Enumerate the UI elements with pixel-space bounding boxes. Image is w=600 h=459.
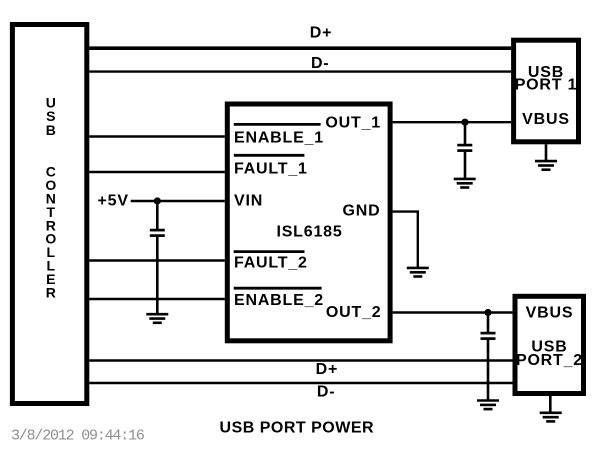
wire capacitor C3 bottom lead to ground (crosses D+ and D-) bbox=[487, 340, 490, 400]
wire D+ (top, controller to USB port 1) bbox=[89, 46, 511, 50]
wire GND pin (U1 to ground), horizontal then vertical bbox=[393, 210, 418, 267]
wire capacitor C1 top lead bbox=[156, 201, 159, 229]
wire capacitor C2 bottom lead to ground bbox=[464, 152, 467, 180]
ground (USB port 1) bbox=[535, 161, 557, 170]
svg-text:FAULT_1: FAULT_1 bbox=[234, 160, 308, 177]
node junction on OUT_2 wire bbox=[484, 309, 491, 316]
ground (below C2) bbox=[454, 179, 476, 188]
wire capacitor C3 top lead bbox=[487, 313, 490, 334]
svg-text:3/8/2012 09:44:16: 3/8/2012 09:44:16 bbox=[11, 428, 145, 445]
svg-text:R: R bbox=[46, 284, 56, 300]
svg-text:OUT_1: OUT_1 bbox=[325, 115, 381, 132]
capacitor C3 (port 2 bypass) bbox=[481, 333, 496, 339]
svg-text:GND: GND bbox=[343, 203, 381, 220]
ground (GND pin) bbox=[407, 268, 429, 277]
node junction on OUT_1 wire bbox=[461, 119, 468, 126]
ground (USB port 2) bbox=[540, 413, 562, 422]
wire D+ (bottom, controller to USB port 2) bbox=[89, 359, 512, 362]
wire D- (top, controller to USB port 1) bbox=[89, 70, 511, 72]
capacitor C2 (port 1 bypass) bbox=[457, 145, 472, 151]
svg-text:PORT 1: PORT 1 bbox=[515, 77, 578, 94]
wire capacitor C2 top lead bbox=[464, 122, 467, 145]
svg-text:PORT_2: PORT_2 bbox=[516, 352, 583, 369]
wire VIN (+5V to U1) bbox=[131, 200, 225, 202]
wire OUT_2 (U1 to USB port 2 VBUS) bbox=[393, 311, 513, 313]
USB port 2 box bbox=[515, 296, 584, 393]
wire OUT_1 (U1 to USB port 1 VBUS) bbox=[393, 121, 512, 123]
wire capacitor C1 bottom lead to ground bbox=[156, 237, 159, 314]
pin label ENABLE_2 with overline bbox=[234, 288, 324, 309]
svg-text:FAULT_2: FAULT_2 bbox=[234, 255, 308, 272]
wire ENABLE_1 (controller to U1) bbox=[89, 135, 225, 137]
svg-text:B: B bbox=[46, 122, 56, 138]
wire USB port 1 ground pin bbox=[545, 144, 548, 161]
svg-text:D+: D+ bbox=[316, 361, 339, 378]
node junction on VIN wire bbox=[154, 197, 161, 204]
wire ENABLE_2 (controller to U1) bbox=[89, 298, 225, 300]
pin label FAULT_1 with overline bbox=[234, 155, 308, 177]
wire FAULT_1 (controller to U1) bbox=[89, 171, 225, 173]
svg-text:+5V: +5V bbox=[98, 192, 129, 209]
svg-text:ENABLE_1: ENABLE_1 bbox=[234, 129, 324, 146]
ground (below C1) bbox=[146, 314, 168, 323]
wire USB port 2 ground pin bbox=[549, 396, 552, 412]
svg-text:D+: D+ bbox=[310, 24, 333, 41]
ground (below C3) bbox=[477, 401, 499, 410]
svg-text:VBUS: VBUS bbox=[526, 305, 574, 322]
svg-text:VIN: VIN bbox=[234, 192, 263, 209]
svg-text:ENABLE_2: ENABLE_2 bbox=[234, 292, 324, 309]
capacitor C1 (+5V bypass) bbox=[150, 230, 165, 236]
USB port 1 box bbox=[514, 40, 579, 142]
svg-text:D-: D- bbox=[317, 384, 335, 401]
svg-text:OUT_2: OUT_2 bbox=[326, 304, 382, 321]
USB controller box bbox=[12, 25, 86, 404]
pin label FAULT_2 with overline bbox=[234, 252, 308, 272]
wire FAULT_2 (controller to U1) bbox=[89, 259, 225, 261]
svg-text:ISL6185: ISL6185 bbox=[276, 223, 342, 240]
svg-text:D-: D- bbox=[311, 55, 329, 72]
svg-text:USB PORT POWER: USB PORT POWER bbox=[220, 420, 375, 437]
op-amp U1 ISL6185 box bbox=[227, 104, 390, 341]
pin label ENABLE_1 with overline bbox=[234, 124, 324, 146]
svg-text:VBUS: VBUS bbox=[522, 111, 570, 128]
wire D- (bottom, controller to USB port 2) bbox=[89, 382, 512, 385]
